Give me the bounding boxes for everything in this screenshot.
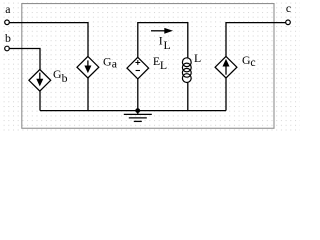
svg-text:a: a [5, 2, 11, 16]
svg-text:c: c [286, 1, 291, 15]
svg-text:b: b [62, 71, 68, 85]
svg-text:L: L [164, 38, 171, 52]
svg-text:c: c [250, 55, 255, 69]
svg-text:b: b [5, 31, 11, 45]
svg-text:a: a [112, 57, 118, 71]
svg-text:L: L [160, 58, 167, 72]
svg-text:I: I [159, 34, 163, 48]
svg-text:L: L [194, 51, 201, 65]
svg-text:G: G [103, 54, 112, 68]
